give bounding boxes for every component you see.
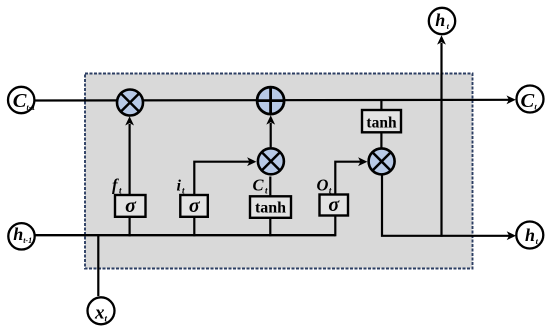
cell body (grey dashed rectangle) [85,74,473,269]
tanh box 1 (candidate) [250,196,291,218]
wire f_t riser lower [129,216,131,237]
wire f_t riser upper with arrow into multiply1 [129,124,131,196]
wire i_t riser upper + elbow into multiply2 [194,162,250,196]
node C_t-1 [8,87,35,113]
wire branch up to top h_t [440,43,442,237]
svg-text:σ: σ [125,195,137,217]
tanh box 2 (output) [362,110,401,132]
sigma box O [320,194,349,216]
node C_t [517,86,544,113]
svg-text:tanh: tanh [255,200,286,217]
wire Ctilde riser upper (tanh to multiply2) [269,177,271,198]
svg-text:tanh: tanh [366,115,397,132]
sigma box f [115,195,146,217]
sigma box i [180,195,208,217]
plus gate (cell update) [257,87,285,115]
multiply gate 2 (input) [258,148,284,174]
svg-text:σ: σ [328,194,340,216]
node h_t-1 [8,223,34,249]
wire O_t riser lower [334,215,336,236]
wire Ctilde riser lower [269,217,271,237]
arrowhead into C_t [507,95,516,104]
wire h_t-1 entry and gate bus [36,234,336,236]
wire C-line (C_t-1 to C_t) [35,99,510,102]
wire O_t riser upper + elbow into multiply3 [335,162,361,196]
node h_t top [429,8,455,34]
node x_t [88,297,115,324]
wire multiply3 output down and right to h_t [382,176,510,236]
node h_t bottom [516,222,543,249]
wire x_t riser [97,234,99,296]
wire C-line to tanh2 [380,101,382,111]
svg-text:σ: σ [189,195,201,217]
wire tanh2 to multiply3 [380,132,382,149]
multiply gate 1 (forget) [117,90,143,116]
wire multiply2 to plus with arrow [270,123,272,147]
multiply gate 3 (output) [369,148,395,174]
wire i_t riser lower [193,216,195,237]
